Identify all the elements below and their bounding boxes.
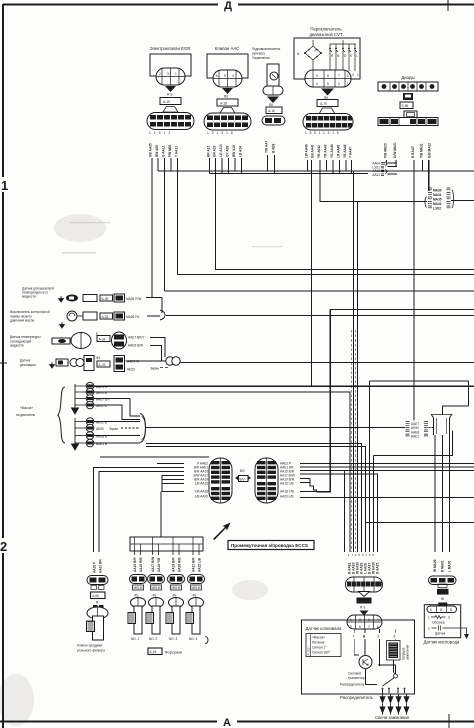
svg-text:7: 7	[353, 635, 355, 639]
engine ground cluster («Масса» на двигатель)	[16, 382, 146, 450]
svg-text:Силовой: Силовой	[348, 672, 361, 676]
svg-text:AAE5 B/W: AAE5 B/W	[128, 344, 143, 348]
svg-text:зажигания: зажигания	[406, 644, 410, 660]
svg-text:Переключатель: Переключатель	[310, 27, 342, 32]
steering switch wire labels	[265, 140, 276, 153]
injector wire pairs and labels	[135, 551, 200, 555]
wire CVT pin1 to bus A	[307, 160, 309, 171]
svg-text:Датчик: Датчик	[435, 632, 446, 636]
EGR solenoid valve (Электроклапан EGR)	[147, 46, 194, 130]
svg-text:L/B AA20: L/B AA20	[195, 495, 209, 499]
svg-text:A-33: A-33	[102, 315, 109, 319]
wire long horizontal AA row3	[165, 290, 474, 292]
zone number 1 left	[0, 177, 10, 192]
svg-text:BAE1: BAE1	[411, 435, 419, 439]
wire CVT pin3 down right	[320, 160, 427, 202]
wire coolant sensor out 1	[150, 338, 165, 357]
wire bundle col1 shield dash	[351, 330, 353, 552]
wire bundle col0	[344, 470, 346, 552]
crank harness connector oval	[346, 577, 383, 592]
svg-text:6: 6	[394, 635, 396, 639]
distributor rotor	[382, 674, 406, 689]
wire ground BAE1 to bracket	[94, 442, 140, 444]
wire coil to rotor	[393, 660, 395, 674]
svg-text:1: 1	[1, 178, 8, 193]
svg-text:G/W MA21: G/W MA21	[393, 142, 397, 158]
svg-text:NO. 2: NO. 2	[149, 637, 158, 641]
svg-text:AA18 Y/B: AA18 Y/B	[280, 490, 294, 494]
svg-text:6: 6	[347, 74, 349, 78]
wire branch stack row4 right	[388, 173, 398, 175]
wire bundle col2 shield dash	[355, 330, 357, 552]
svg-text:B AE9: B AE9	[272, 144, 276, 153]
svg-text:A-34: A-34	[99, 337, 106, 341]
svg-text:L MA30: L MA30	[448, 560, 452, 572]
svg-text:B BAAT: B BAAT	[411, 146, 415, 158]
svg-text:2: 2	[159, 72, 161, 76]
CVT triangle	[321, 89, 334, 96]
wire diode 3 battery long down	[413, 160, 415, 421]
injector manifold junction box	[130, 537, 203, 551]
wire long horizontal AA row2	[178, 274, 474, 276]
frame top border	[3, 4, 474, 6]
wire EGR pin2 to bus	[157, 158, 159, 171]
wire ECCS left row5	[162, 479, 184, 481]
wire oxygen feed corner	[443, 406, 469, 415]
wire branch stack row1 right	[388, 162, 398, 164]
wire AAC pin1 to bus B	[209, 158, 211, 174]
svg-text:«Масса»: «Масса»	[312, 636, 325, 640]
wire oxygen 3	[449, 435, 451, 552]
wire crank pin7 stub	[353, 629, 355, 633]
wire pin7 to transistor	[354, 639, 359, 655]
svg-text:5: 5	[378, 635, 380, 639]
svg-text:угольного фильтра: угольного фильтра	[77, 649, 105, 653]
svg-text:R S: R S	[360, 606, 365, 610]
wire pin5 to rotor	[379, 639, 395, 674]
wire ground aux horizontal	[100, 456, 209, 458]
oxygen sensor ground arrow	[448, 628, 467, 634]
oxygen sensor connector	[429, 576, 457, 601]
coolant temp gauge sender (Датчик для указателя температуры охл. жидкости)	[22, 287, 141, 303]
wire CVT pin7 to bus A	[345, 160, 347, 171]
purge valve connector	[87, 576, 108, 605]
svg-text:Клапан продувки: Клапан продувки	[77, 644, 102, 648]
CVT plug pentagon	[319, 108, 335, 114]
EGR wire labels	[149, 131, 173, 135]
svg-text:3: 3	[167, 72, 169, 76]
crank harness id box	[357, 598, 372, 610]
wire CVT pin6 to bus B	[339, 160, 341, 174]
wire ECCS right row2 to edge	[300, 466, 474, 468]
svg-text:А: А	[223, 717, 231, 728]
svg-text:A-101--: A-101--	[307, 646, 311, 655]
wire ground AE01b to bracket	[94, 421, 140, 423]
coolant temperature sensor (Датчик температуры охлаждающей жидкости)	[10, 332, 145, 349]
wire AAC pin5 to bus A	[234, 158, 236, 171]
brace	[58, 387, 65, 443]
ECCS intermediate harness connector right	[255, 458, 278, 503]
svg-text:131518: 131518	[207, 131, 236, 135]
ECCS right bracket step	[300, 479, 317, 493]
svg-text:AA20 R/B: AA20 R/B	[178, 557, 182, 572]
injector NO.2	[146, 575, 165, 642]
shield splice (Экран)	[150, 357, 180, 371]
svg-text:MA06 P/L: MA06 P/L	[126, 315, 140, 319]
svg-text:Y AA31: Y AA31	[175, 146, 179, 157]
crank sensor pin connector	[347, 615, 382, 629]
svg-text:3: 3	[448, 616, 450, 620]
svg-text:давления масла: давления масла	[10, 319, 34, 323]
wire oxygen 1	[434, 435, 436, 552]
wire diode 1 to branch stack	[386, 160, 388, 163]
tick bottom right	[448, 714, 450, 728]
svg-text:AA22 L/B: AA22 L/B	[198, 557, 202, 572]
wire crank pin6 stub	[394, 629, 396, 633]
ground eyelets lower	[75, 418, 118, 447]
svg-text:NO. 4: NO. 4	[189, 637, 198, 641]
svg-text:RS: RS	[224, 95, 228, 99]
svg-text:Управления: Управления	[252, 56, 270, 60]
wire ECCS right row1 to edge	[300, 463, 474, 465]
ground eyelets upper	[75, 382, 111, 409]
svg-text:1: 1	[347, 82, 349, 86]
wire AAC pin4 to bus B	[228, 158, 230, 174]
svg-text:5: 5	[224, 74, 226, 78]
wire diode 5 down to MA stack	[428, 160, 430, 191]
wire ground AAE7 to bracket	[94, 399, 140, 417]
svg-text:MA30: MA30	[433, 189, 442, 193]
svg-text:8: 8	[327, 74, 329, 78]
oil pressure warning switch (Выключатель контрольной лампы низкого давления масла)	[10, 310, 140, 328]
svg-text:MA31: MA31	[433, 193, 442, 197]
svg-text:A-101: A-101	[358, 599, 367, 603]
svg-text:#S: #S	[193, 594, 197, 598]
svg-text:6: 6	[216, 74, 218, 78]
svg-text:B MA01: B MA01	[441, 560, 445, 572]
wire bundle col1	[353, 171, 355, 552]
wire bundle col4	[373, 456, 375, 553]
oxygen sensor wire labels	[433, 559, 452, 572]
svg-text:Ф3: Ф3	[96, 356, 100, 360]
wire coolant sensor out 2	[150, 346, 166, 362]
branch wire labels stack AA04 (top right)	[372, 162, 387, 177]
crank sensor legend box	[306, 634, 341, 657]
svg-text:транзистор: транзистор	[348, 676, 365, 680]
AAC valve (Клапан AAC)	[204, 46, 251, 130]
injector NO.3	[166, 575, 185, 642]
svg-text:AA21 B/R: AA21 B/R	[192, 557, 196, 572]
svg-text:Гидровыключатель: Гидровыключатель	[252, 47, 281, 51]
svg-text:11511: 11511	[149, 131, 173, 135]
frame bottom border	[0, 721, 474, 723]
wire AAC pin6 to bus B	[241, 158, 243, 174]
wire ground trunk BAE down right	[146, 444, 362, 553]
sensor merge bracket	[160, 310, 165, 320]
AAC wire labels	[207, 131, 236, 135]
svg-text:LB A24: LB A24	[239, 146, 243, 157]
wire bundle col3	[369, 381, 371, 552]
svg-text:YW AA7: YW AA7	[265, 140, 269, 153]
svg-text:Y/B AA18: Y/B AA18	[194, 490, 208, 494]
wire ground AE01 to bracket	[94, 405, 140, 420]
wire ECCS right row8 long	[300, 497, 474, 499]
svg-text:NO. 1: NO. 1	[131, 637, 140, 641]
wire pin6 to coil	[394, 639, 396, 641]
diodes (Диоды)	[378, 75, 438, 126]
svg-text:2: 2	[0, 539, 7, 554]
wire shield stack to tube dashed	[429, 427, 434, 429]
wire CVT pin8 to bus B	[351, 160, 353, 174]
crank harness plug triangle	[359, 592, 370, 597]
wire horizontal 381 right U-turn	[370, 381, 469, 406]
svg-text:AAE7 BR/Y: AAE7 BR/Y	[128, 336, 145, 340]
svg-text:LG A113: LG A113	[219, 144, 223, 157]
wire ECCS left rows drop	[162, 476, 184, 492]
svg-text:LR AA45: LR AA45	[337, 145, 341, 158]
svg-text:1: 1	[357, 73, 359, 77]
svg-text:Клапан ААС: Клапан ААС	[215, 46, 239, 51]
svg-text:9: 9	[316, 74, 318, 78]
wire crank pinB stub	[364, 629, 366, 633]
connector stack MA3x (right)	[425, 188, 454, 211]
svg-text:Питание: Питание	[312, 641, 325, 645]
CVT connector id box	[317, 100, 338, 107]
svg-text:AA16 R/B: AA16 R/B	[139, 557, 143, 572]
wire merged sensors long right	[166, 315, 474, 317]
wire diode 4 to bus	[422, 160, 424, 171]
wire AAC pin2 long down right	[216, 158, 474, 270]
svg-text:A-66: A-66	[92, 594, 99, 598]
junction dot pin5	[378, 664, 380, 666]
svg-text:жидкости: жидкости	[22, 295, 36, 299]
CVT pin connector oval	[305, 70, 351, 87]
ECCS left connector wire labels	[193, 462, 208, 499]
wire ground AAE1 long right	[94, 385, 474, 387]
svg-text:на двигатель: на двигатель	[16, 413, 35, 417]
svg-text:GY A09: GY A09	[226, 146, 230, 157]
wire CVT pin5 to bus B	[332, 160, 334, 174]
purge valve body (Клапан продувки угольного фильтра)	[77, 605, 108, 653]
wire shield trunk right	[146, 427, 405, 429]
ECCS right connector wire labels	[280, 462, 295, 499]
svg-text:MA05 P/W: MA05 P/W	[126, 297, 141, 301]
svg-text:4: 4	[232, 74, 234, 78]
crank box triangle	[360, 611, 369, 616]
svg-text:A-19: A-19	[163, 100, 170, 104]
svg-text:G AA12: G AA12	[162, 145, 166, 157]
wire oil switch out	[147, 315, 160, 317]
ECCS harness label box (Промежуточная э/проводка ECCS)	[228, 541, 314, 550]
svg-text:Диоды: Диоды	[401, 75, 414, 80]
injector group bracket	[205, 636, 208, 644]
wire sensors merge drop	[161, 298, 163, 314]
wire ground AE09 right then down	[94, 392, 350, 552]
ground wire labels stack AAE (lower right)	[406, 422, 429, 439]
svg-text:Форсунки: Форсунки	[165, 650, 183, 655]
svg-text:NO. 3: NO. 3	[169, 637, 178, 641]
svg-text:A-16: A-16	[268, 109, 275, 113]
diode wire labels	[384, 142, 432, 158]
svg-text:GR A23: GR A23	[213, 145, 217, 157]
wire diode 2 to branch stack	[395, 160, 397, 166]
svg-text:Сигнал 1°: Сигнал 1°	[312, 646, 327, 650]
wire temp gauge sender out	[146, 297, 162, 299]
power steering hydraulic switch (Гидровыключатель рулевого управления)	[252, 47, 285, 125]
svg-text:Экран: Экран	[109, 427, 118, 431]
svg-text:#S: #S	[173, 594, 177, 598]
svg-text:T/B MA31: T/B MA31	[420, 143, 424, 158]
svg-text:S: S	[350, 54, 352, 58]
svg-text:AA16 L/B: AA16 L/B	[280, 482, 293, 486]
svg-text:6: 6	[359, 625, 361, 629]
wire ground trunk 2 down right	[146, 447, 366, 553]
wire injector feed drop	[160, 492, 162, 538]
svg-text:рулевого: рулевого	[252, 52, 265, 56]
svg-text:4: 4	[352, 73, 354, 77]
svg-text:YG AA44: YG AA44	[330, 144, 334, 158]
svg-text:A-46: A-46	[438, 591, 445, 595]
wire EGR pin3 down long	[164, 158, 166, 291]
wire bus B horizontal	[210, 173, 369, 175]
wire CVT pin2 long down	[311, 160, 313, 386]
wire AAC pin3 to bus B	[221, 158, 223, 174]
svg-text:Распределитель: Распределитель	[340, 695, 374, 700]
ECCS harness pointer arrow	[213, 523, 231, 541]
svg-text:L3O2: L3O2	[433, 207, 441, 211]
svg-text:#S: #S	[153, 594, 157, 598]
wire horizontal 455	[374, 431, 453, 456]
svg-text:Сигнал 180°: Сигнал 180°	[312, 651, 331, 655]
svg-text:5: 5	[327, 82, 329, 86]
svg-text:AA19 B/R: AA19 B/R	[172, 557, 176, 572]
CVT harness oval	[303, 114, 353, 131]
wire knock sensor out	[126, 360, 166, 362]
svg-text:Свечи зажигания: Свечи зажигания	[375, 715, 410, 720]
wire ECCS right thick loop	[317, 310, 331, 492]
svg-text:7: 7	[368, 625, 370, 629]
svg-text:S-56: S-56	[402, 104, 409, 108]
svg-text:Обогрев.: Обогрев.	[432, 621, 445, 625]
injector NO.4	[186, 575, 205, 642]
svg-text:5: 5	[350, 625, 352, 629]
svg-text:A-35: A-35	[102, 297, 109, 301]
svg-text:1: 1	[428, 616, 430, 620]
wire pinB to transistor	[364, 639, 366, 656]
injector NO.1	[128, 575, 147, 642]
svg-text:M51M: M51M	[152, 586, 161, 590]
frame left border	[2, 4, 4, 728]
svg-text:1: 1	[175, 72, 177, 76]
CVT range switch (Переключатель диапазонов CVT)	[294, 27, 360, 131]
wire ground shield AE50 dashed	[121, 427, 140, 429]
CVT switch contacts left (N/P)	[304, 40, 322, 71]
CVT switch contacts right	[329, 40, 357, 71]
svg-text:P/B MA20: P/B MA20	[384, 143, 388, 158]
wire EGR pin4 to bus	[170, 158, 172, 171]
wire bus A horizontal	[158, 170, 474, 172]
ground merge bracket	[140, 414, 146, 443]
svg-text:M51M: M51M	[172, 586, 181, 590]
wire branch stack row2 right	[388, 165, 398, 167]
svg-text:A-16: A-16	[150, 650, 157, 654]
svg-text:детонации: детонации	[20, 363, 36, 367]
svg-text:Экран: Экран	[150, 367, 159, 371]
svg-text:B AA25: B AA25	[376, 563, 380, 574]
svg-text:YR AA43: YR AA43	[324, 144, 328, 158]
svg-text:Промежуточная э/проводка ECCS: Промежуточная э/проводка ECCS	[231, 543, 308, 548]
zone number 2 left	[0, 538, 10, 553]
wire ECCS left row1	[157, 463, 184, 465]
wire EGR pin5 down	[177, 158, 179, 275]
svg-text:R S: R S	[167, 93, 172, 97]
oxygen sensor box (Датчик кислорода)	[424, 603, 470, 645]
wire CVT pin4 to bus A	[326, 160, 328, 171]
svg-text:YB AA46: YB AA46	[343, 144, 347, 158]
svg-text:AAE1 B: AAE1 B	[96, 385, 107, 389]
wire EGR pin1 down	[151, 158, 153, 298]
wire long horizontal bracket feed	[330, 309, 474, 311]
svg-text:AA01 BR: AA01 BR	[99, 559, 103, 573]
svg-text:LW AA40: LW AA40	[305, 144, 309, 158]
svg-text:Д: Д	[224, 0, 232, 12]
power transistor circle	[340, 656, 372, 687]
svg-text:AE53: AE53	[127, 368, 135, 372]
ground symbol upper	[72, 384, 79, 414]
shield cable tube (right)	[431, 415, 453, 436]
svg-text:YB A042: YB A042	[317, 145, 321, 158]
svg-text:W MA29: W MA29	[433, 559, 437, 572]
crank harness wire labels	[348, 553, 376, 557]
wire steering switch pin2	[274, 155, 276, 174]
svg-text:Датчик кислорода: Датчик кислорода	[424, 640, 460, 645]
wire purge valve 2	[99, 472, 184, 553]
svg-text:8: 8	[377, 625, 379, 629]
svg-text:P: P	[315, 49, 317, 53]
ECCS intermediate harness connector left	[209, 458, 232, 503]
ECCS coupling id box	[235, 469, 251, 482]
svg-text:2: 2	[440, 608, 442, 612]
svg-text:1: 1	[430, 608, 432, 612]
svg-text:GB AA05: GB AA05	[149, 143, 153, 157]
svg-text:#S: #S	[135, 594, 139, 598]
wire transistor down	[366, 669, 378, 685]
carbon canister purge valve wires labels	[93, 559, 103, 573]
tick top right	[447, 0, 449, 11]
svg-text:«Масса»: «Масса»	[20, 406, 33, 410]
ignition coil	[387, 641, 410, 661]
svg-text:AE50: AE50	[96, 427, 104, 431]
svg-text:B/V: B/V	[240, 477, 246, 481]
svg-text:A-76: A-76	[99, 363, 106, 367]
svg-text:Распределитель: Распределитель	[340, 683, 365, 687]
svg-text:PW M05: PW M05	[168, 145, 172, 157]
svg-text:4: 4	[316, 82, 318, 86]
svg-text:L: L	[356, 54, 358, 58]
svg-text:AA02 P: AA02 P	[93, 561, 97, 573]
wire shield long right	[180, 362, 474, 364]
wire MA stack out right	[451, 200, 474, 202]
svg-text:3: 3	[450, 608, 452, 612]
ground symbol lower	[72, 418, 79, 450]
svg-text:AA17 B/W: AA17 B/W	[151, 557, 155, 572]
svg-text:BW A09: BW A09	[155, 145, 159, 157]
wire ECCS right row4 down bundle	[300, 474, 378, 552]
svg-text:Y AA47: Y AA47	[349, 147, 353, 158]
svg-text:Электроклапан EGR: Электроклапан EGR	[150, 46, 191, 51]
svg-text:W: W	[441, 597, 444, 601]
wire steering switch pin1	[267, 155, 269, 171]
